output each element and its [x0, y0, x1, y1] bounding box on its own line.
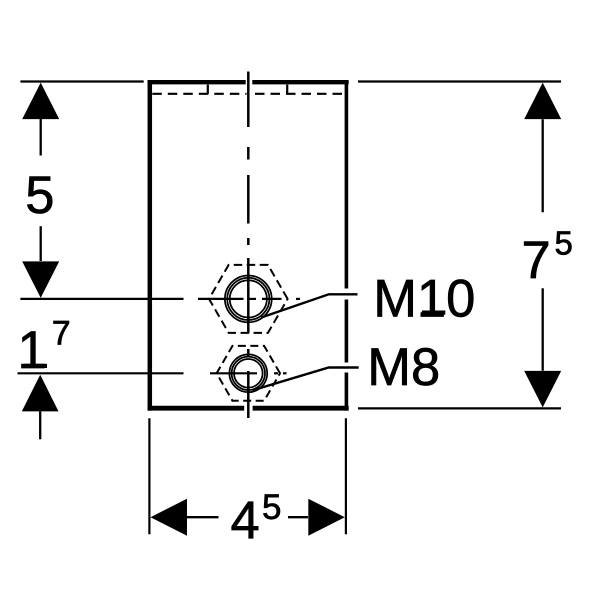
hidden edge tick right [286, 85, 288, 94]
svg-text:5: 5 [25, 166, 54, 225]
svg-text:M10: M10 [373, 269, 475, 328]
leader M8 [253, 368, 359, 391]
dim 1.7 label foot of 1 [24, 364, 47, 368]
nut M8 hexagon [217, 346, 280, 401]
dim 5 arrow down [22, 261, 59, 298]
hidden edge dashed line [152, 93, 246, 95]
dim 1.7 arrow up with tail [22, 375, 59, 412]
dim 4.5 line left segment [187, 516, 219, 518]
part outline bottom edge [148, 406, 349, 411]
dim 4.5 arrow right [308, 499, 345, 536]
dim 4.5 extension line left [148, 418, 150, 534]
svg-text:5: 5 [555, 225, 573, 262]
dim 7.5 extension line top right [358, 80, 561, 82]
dim 5 extension line top [20, 80, 143, 82]
dim 4.5 arrow left [151, 499, 188, 536]
dim 7.5 extension line bottom right [358, 407, 561, 409]
svg-text:7: 7 [52, 314, 71, 352]
svg-text:M8: M8 [367, 338, 440, 397]
dim 7.5 arrow down [524, 371, 561, 408]
nut M10 horizontal centerline [20, 298, 300, 300]
dim 1.7 arrow tail [39, 411, 41, 439]
leader M10 [261, 294, 357, 317]
hidden edge tick left [207, 85, 209, 94]
dim 4.5 extension line right [345, 418, 347, 534]
vertical centerline [247, 72, 250, 419]
dim 5 line upper segment [40, 119, 42, 156]
svg-text:7: 7 [522, 231, 551, 290]
dim 7.5 arrow up [524, 83, 561, 120]
part outline top edge [148, 80, 349, 84]
part outline left edge [148, 80, 153, 411]
dim 5 arrow up [22, 83, 59, 120]
dim 7.5 line lower segment [542, 288, 544, 371]
nut M10 hexagon [209, 265, 288, 333]
nut M8 thread circles [229, 354, 267, 392]
nut M10 thread circles [225, 276, 272, 323]
part outline right edge [345, 80, 349, 411]
dim 5 line lower segment [40, 226, 42, 261]
dim 7.5 line upper segment [542, 119, 544, 212]
dim 4.5 line right segment [288, 516, 308, 518]
svg-text:1: 1 [18, 321, 47, 380]
label M10 foot of 1 [422, 311, 445, 315]
svg-text:5: 5 [262, 488, 281, 527]
svg-text:4: 4 [231, 492, 260, 551]
nut M8 horizontal centerline [18, 372, 287, 374]
